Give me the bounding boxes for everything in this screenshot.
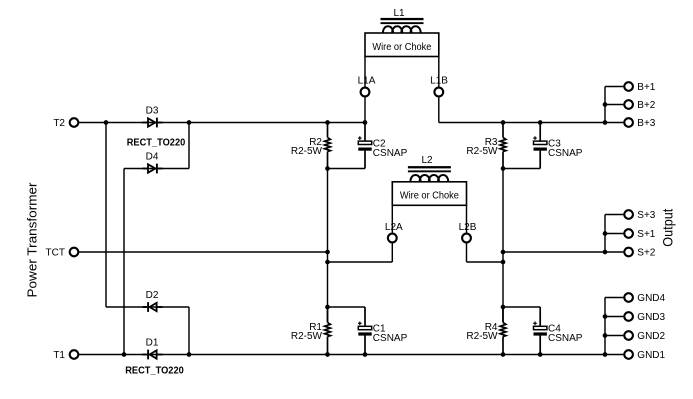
svg-text:B+3: B+3 bbox=[637, 118, 656, 129]
wire R4/C4 top bbox=[503, 306, 540, 308]
resistor R3 bbox=[500, 123, 506, 169]
wire R3/C3 bottom bbox=[503, 168, 540, 170]
svg-text:Power Transformer: Power Transformer bbox=[25, 182, 40, 298]
wire stub GND3 bbox=[605, 316, 623, 318]
junction GND bus / R4 bbox=[501, 352, 506, 357]
svg-text:D2: D2 bbox=[146, 290, 159, 301]
wire D4 row bbox=[124, 168, 189, 170]
svg-text:RECT_TO220: RECT_TO220 bbox=[127, 138, 186, 149]
svg-text:R2-5W: R2-5W bbox=[466, 331, 498, 342]
junction output GND1 bbox=[603, 352, 608, 357]
wire stub B+3 bbox=[605, 122, 623, 124]
resistor R4 bbox=[500, 307, 506, 355]
svg-text:B+1: B+1 bbox=[637, 82, 656, 93]
capacitor C4 bbox=[533, 307, 547, 355]
junction T2 bus / D4 riser bbox=[187, 120, 192, 125]
inductor L1 core bars bbox=[381, 18, 424, 24]
diode D4 bbox=[143, 164, 163, 174]
diode D2 bbox=[143, 302, 163, 312]
wire stub B+2 bbox=[605, 104, 623, 106]
inductor L1 coil bbox=[383, 26, 421, 34]
svg-text:GND1: GND1 bbox=[637, 350, 665, 361]
svg-text:Output: Output bbox=[659, 209, 675, 247]
junction GND bus / C1 bbox=[363, 352, 368, 357]
svg-text:GND4: GND4 bbox=[637, 293, 665, 304]
junction R1C1 top / left center bus bbox=[325, 305, 330, 310]
terminal S+3 bbox=[624, 210, 633, 219]
wire L2B lead lower bbox=[466, 243, 468, 262]
junction T1 bus / D2 dropper bbox=[187, 352, 192, 357]
wire L1A lead upper bbox=[364, 57, 366, 88]
wire vertical D4 riser bbox=[188, 123, 190, 169]
wire TCT bus bbox=[79, 251, 328, 253]
svg-text:T2: T2 bbox=[53, 118, 65, 129]
junction R3C3 bottom / right bus bbox=[501, 166, 506, 171]
wire stub GND1 bbox=[605, 354, 623, 356]
inductor L1 box bbox=[365, 33, 439, 57]
diode D1 bbox=[143, 350, 163, 360]
terminal TCT bbox=[70, 248, 79, 257]
svg-text:Wire or Choke: Wire or Choke bbox=[372, 42, 431, 53]
junction output S+2 bbox=[603, 250, 608, 255]
junction GND bus / C4 bbox=[538, 352, 543, 357]
terminal T2 bbox=[70, 118, 79, 127]
terminal GND3 bbox=[624, 312, 633, 321]
terminal GND1 bbox=[624, 350, 633, 359]
svg-text:S+1: S+1 bbox=[637, 229, 656, 240]
junction L2B branch / right center bus bbox=[501, 260, 506, 265]
svg-text:L2B: L2B bbox=[459, 222, 477, 233]
wire T2 to B+ bus (row y=122.5) bbox=[79, 122, 365, 124]
wire vertical T2 branch to D2 bbox=[105, 123, 107, 308]
wire R1/C1 top bbox=[328, 306, 366, 308]
junction L2A branch / left center bus bbox=[325, 260, 330, 265]
terminal L2B bbox=[462, 234, 471, 243]
capacitor C1 bbox=[358, 307, 372, 355]
junction S+ bus / right center bus bbox=[501, 250, 506, 255]
svg-text:L2: L2 bbox=[421, 155, 433, 166]
svg-text:GND2: GND2 bbox=[637, 331, 665, 342]
junction output GND3 bbox=[603, 314, 608, 319]
wire L1A lead lower bbox=[364, 97, 366, 123]
wire vertical right center bus bbox=[502, 169, 504, 323]
wire vertical D4 to T1 bus bbox=[123, 169, 125, 355]
svg-text:L1: L1 bbox=[393, 8, 405, 19]
terminal L1B bbox=[434, 88, 443, 97]
wire D2 row bbox=[106, 306, 189, 308]
svg-text:RECT_TO220: RECT_TO220 bbox=[125, 366, 184, 377]
junction output S+1 bbox=[603, 231, 608, 236]
wire T1/GND bus bbox=[79, 354, 605, 356]
junction output B+2 bbox=[603, 102, 608, 107]
junction GND bus / R1 bbox=[325, 352, 330, 357]
svg-text:CSNAP: CSNAP bbox=[373, 333, 408, 344]
junction B+ bus / R3 bbox=[501, 120, 506, 125]
terminal T1 bbox=[70, 350, 79, 359]
inductor L2 coil bbox=[411, 175, 449, 183]
svg-text:L2A: L2A bbox=[385, 222, 403, 233]
junction T1 bus / D4 branch bbox=[122, 352, 127, 357]
wire stub GND4 bbox=[605, 297, 623, 299]
svg-text:CSNAP: CSNAP bbox=[548, 148, 583, 159]
terminal S+2 bbox=[624, 248, 633, 257]
junction B+ bus / C2 / L1A bbox=[363, 120, 368, 125]
wire vertical output GND group bbox=[604, 298, 606, 355]
svg-text:R2-5W: R2-5W bbox=[291, 146, 323, 157]
inductor L2 box bbox=[392, 182, 466, 206]
terminal L1A bbox=[361, 88, 370, 97]
wire vertical output B+ group bbox=[604, 87, 606, 123]
capacitor C2 bbox=[358, 123, 372, 169]
junction B+ bus / R2 bbox=[325, 120, 330, 125]
svg-text:Wire or Choke: Wire or Choke bbox=[400, 191, 459, 202]
resistor R2 bbox=[325, 123, 331, 169]
svg-text:D3: D3 bbox=[146, 106, 159, 117]
wire vertical D2 dropper bbox=[188, 307, 190, 355]
terminal B+3 bbox=[624, 118, 633, 127]
junction B+ bus / C3 bbox=[538, 120, 543, 125]
junction TCT / left center bus bbox=[325, 250, 330, 255]
svg-text:D4: D4 bbox=[146, 152, 159, 163]
wire stub S+1 bbox=[605, 233, 623, 235]
inductor L2 core bars bbox=[408, 166, 451, 172]
terminal S+1 bbox=[624, 229, 633, 238]
junction R2C2 bottom / center bus bbox=[325, 166, 330, 171]
wire S+ bus bbox=[503, 251, 605, 253]
wire stub S+2 bbox=[605, 251, 623, 253]
svg-text:R2-5W: R2-5W bbox=[291, 331, 323, 342]
svg-text:R2-5W: R2-5W bbox=[466, 146, 498, 157]
wire L2A branch bbox=[328, 261, 393, 263]
wire vertical left center bus bbox=[327, 169, 329, 323]
terminal GND4 bbox=[624, 293, 633, 302]
terminal B+1 bbox=[624, 82, 633, 91]
svg-text:D1: D1 bbox=[146, 338, 159, 349]
wire B+ right segment bbox=[439, 122, 605, 124]
wire R2/C2 bottom bbox=[328, 168, 366, 170]
wire L2A lead upper bbox=[391, 205, 393, 233]
svg-text:L1B: L1B bbox=[430, 76, 448, 87]
svg-text:TCT: TCT bbox=[46, 248, 65, 259]
junction R4C4 top / right center bus bbox=[501, 305, 506, 310]
svg-text:CSNAP: CSNAP bbox=[548, 333, 583, 344]
wire vertical output S group bbox=[604, 215, 606, 253]
wire L2B branch bbox=[467, 261, 504, 263]
diode D3 bbox=[143, 118, 163, 128]
junction output B+3 bbox=[603, 120, 608, 125]
wire L1B lead upper bbox=[438, 57, 440, 88]
terminal B+2 bbox=[624, 100, 633, 109]
capacitor C3 bbox=[533, 123, 547, 169]
terminal GND2 bbox=[624, 331, 633, 340]
wire L2A lead lower bbox=[391, 243, 393, 262]
svg-text:CSNAP: CSNAP bbox=[373, 148, 408, 159]
wire stub S+3 bbox=[605, 214, 623, 216]
svg-text:T1: T1 bbox=[53, 350, 65, 361]
svg-text:S+3: S+3 bbox=[637, 210, 656, 221]
wire stub B+1 bbox=[605, 86, 623, 88]
svg-text:B+2: B+2 bbox=[637, 100, 656, 111]
wire stub GND2 bbox=[605, 335, 623, 337]
junction T2 bus / D2 branch bbox=[104, 120, 109, 125]
svg-text:GND3: GND3 bbox=[637, 312, 665, 323]
junction output GND2 bbox=[603, 333, 608, 338]
wire L2B lead upper bbox=[466, 205, 468, 233]
svg-text:L1A: L1A bbox=[358, 76, 376, 87]
svg-text:S+2: S+2 bbox=[637, 248, 656, 259]
resistor R1 bbox=[325, 307, 331, 355]
wire L1B lead lower bbox=[438, 97, 440, 123]
terminal L2A bbox=[388, 234, 397, 243]
